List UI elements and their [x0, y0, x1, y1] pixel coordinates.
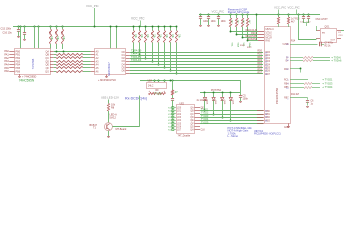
- svg-text:RD4: RD4: [258, 63, 263, 65]
- U5 bottom ground pin: [287, 123, 290, 127]
- U5 pin VUSB wire: [290, 42, 324, 47]
- lower bus wires to U5: [200, 111, 263, 124]
- svg-text:PIC18F4550: PIC18F4550: [275, 87, 279, 104]
- svg-text:74HC595N: 74HC595N: [19, 78, 34, 82]
- osc internal text: [322, 33, 336, 42]
- IC2 internal pin names left: [96, 50, 100, 73]
- label C15 100n: [1, 28, 12, 31]
- bus wires IC2 to U5: [130, 53, 263, 74]
- svg-text:QH: QH: [190, 130, 194, 132]
- svg-text:PGC: PGC: [247, 47, 252, 49]
- IC2 right pin stubs: [126, 53, 130, 74]
- wire VCC drop to U5 MCLR region: [256, 14, 258, 41]
- wire VCC rail right section: [199, 14, 320, 16]
- net labels TXPA-D0..D3: [131, 50, 142, 62]
- resistor RN1e: [54, 67, 91, 69]
- wire y80 drops to U$4: [155, 80, 165, 82]
- capacitor on x172.5: [171, 99, 174, 108]
- capacitor C16: [23, 26, 26, 41]
- U5 upper left pin labels: [245, 30, 257, 41]
- svg-text:VCC_PIC: VCC_PIC: [288, 6, 300, 10]
- crystal capacitor CX2: [307, 14, 310, 23]
- svg-text:74HC595: 74HC595: [32, 58, 35, 69]
- label R8 10k: [111, 104, 116, 110]
- labels PGD PGC: [240, 45, 252, 49]
- wire osc bottom hline: [298, 39, 316, 41]
- U$2 left pad chain: [172, 108, 174, 130]
- IC2 internal pin names right: [122, 51, 126, 73]
- svg-text:TXPA-D3: TXPA-D3: [131, 59, 142, 62]
- svg-text:VCC_PIC: VCC_PIC: [274, 6, 286, 10]
- pin labels at U5 left mid: [258, 51, 263, 75]
- resistor RI4 ICSP: [246, 14, 258, 41]
- note text block: [228, 126, 253, 138]
- svg-text:OSC2: OSC2: [266, 35, 273, 37]
- capacitor C2 decoupling: [199, 14, 202, 27]
- svg-text:RD1: RD1: [258, 54, 263, 56]
- svg-text:OSC LP/XT: OSC LP/XT: [316, 19, 329, 21]
- svg-text:CLK: CLK: [201, 130, 206, 132]
- resistor RI1 ICSP: [229, 14, 258, 32]
- U5 pin RC1 wire label: [290, 79, 333, 82]
- U$2 internal text: [177, 107, 194, 132]
- net labels SCL SDA vertical: [231, 43, 251, 48]
- wire to R8: [108, 100, 110, 104]
- svg-text:PIC18F4550 -I/O(PLCC): PIC18F4550 -I/O(PLCC): [254, 133, 281, 136]
- U$2 right pins: [195, 108, 201, 130]
- oscillator QG1 box: [321, 29, 337, 43]
- IC2 left pins: [91, 52, 95, 72]
- svg-text:R11 4k7: R11 4k7: [291, 94, 300, 96]
- junction dots on left rail: [18, 26, 64, 28]
- svg-text:OUT: OUT: [331, 40, 336, 42]
- capacitor C4 decoupling: [217, 14, 220, 27]
- diode D1: [203, 93, 206, 111]
- label RP4 value: [150, 32, 155, 38]
- label RP2 value: [137, 32, 142, 38]
- svg-text:RD5: RD5: [258, 66, 263, 68]
- IC2 MCP23017 box: [95, 49, 126, 75]
- diode D2: [212, 93, 215, 115]
- svg-text:QG1: QG1: [325, 27, 331, 29]
- component between rail and U5 top 2: [287, 14, 289, 27]
- svg-text:⇒ TXD+6: ⇒ TXD+6: [331, 60, 342, 63]
- svg-text:U$2: U$2: [180, 102, 185, 105]
- resistor RP5 pull-up: [157, 26, 159, 66]
- svg-text:RD7: RD7: [258, 73, 263, 75]
- wire osc bottom stub: [316, 39, 318, 40]
- wire horizontal net y93: [200, 92, 240, 94]
- wire rail to IC1 top pin 2: [38, 26, 40, 48]
- note Reserved ICSP: [228, 7, 250, 14]
- U5 left pins lower group stubs: [257, 111, 264, 124]
- resistor RN1d: [54, 64, 91, 66]
- svg-text:100n: 100n: [211, 21, 217, 23]
- label RP1 value: [131, 32, 136, 38]
- svg-text:U$4: U$4: [148, 80, 153, 83]
- label RP7 value: [168, 32, 173, 38]
- svg-text:QE: QE: [190, 120, 194, 122]
- resistor RN1a: [54, 54, 91, 56]
- wire osc out: [341, 30, 344, 32]
- U5 PIC18F4550 box: [265, 27, 291, 124]
- label T1 BC547: [90, 124, 98, 130]
- label RP8 value: [175, 32, 180, 38]
- resistor RP8 pull-up: [175, 26, 177, 75]
- wire T1 emitter to ground: [107, 131, 110, 138]
- svg-text:RD2: RD2: [258, 57, 263, 59]
- svg-text:RD3: RD3: [258, 60, 263, 62]
- resistor RP1 pull-up: [132, 26, 134, 54]
- svg-text:QB: QB: [190, 111, 194, 113]
- svg-text:100n: 100n: [221, 21, 227, 23]
- U$2 right pin labels: [201, 108, 206, 132]
- resistor RD2: [158, 90, 166, 95]
- label LED-A: [110, 114, 118, 120]
- IC1 ground pin: [18, 74, 21, 78]
- svg-text:POT/754: POT/754: [211, 89, 221, 92]
- label RP5 value: [156, 32, 161, 38]
- oscillator pins: [316, 31, 341, 39]
- U5 internal pin names right: [282, 44, 289, 100]
- svg-text:L - Mono: L - Mono: [228, 134, 239, 138]
- svg-text:Report SPI mode: Report SPI mode: [228, 10, 250, 14]
- resistor R8: [107, 104, 109, 112]
- svg-text:4148: 4148: [214, 100, 216, 106]
- label C7 470n: [325, 43, 334, 48]
- resistor R2 pullup: [55, 26, 57, 49]
- svg-text:QG: QG: [45, 70, 49, 73]
- crystal capacitor CX1: [302, 14, 305, 23]
- svg-text:⇒ TYC01: ⇒ TYC01: [322, 79, 333, 82]
- U5 pin RB4 resistor: [290, 82, 320, 84]
- diode D4: [229, 93, 232, 121]
- wire rail to IC1 pin VCC: [20, 26, 22, 48]
- resistor RN1c: [54, 61, 91, 63]
- label R2 10k: [54, 31, 58, 40]
- svg-text:OSC1: OSC1: [266, 32, 273, 34]
- resistor RP2 pull-up: [138, 26, 140, 57]
- svg-text:QG: QG: [190, 126, 194, 128]
- IC1 right pins: [50, 52, 54, 72]
- U$2 left pad labels: [168, 108, 171, 132]
- svg-text:QA: QA: [190, 107, 194, 110]
- svg-text:TYC05: TYC05: [201, 122, 209, 124]
- label C6 1u: [311, 101, 315, 106]
- svg-text:PB6: PB6: [16, 70, 21, 73]
- U5 pin D+ series resistor: [290, 59, 330, 61]
- label osc out: [339, 32, 344, 37]
- svg-text:OSC2: OSC2: [251, 33, 258, 35]
- svg-text:RA5: RA5: [266, 39, 271, 42]
- IC1 74HC595 box: [15, 49, 51, 75]
- U5 pin D- series resistor: [290, 56, 330, 58]
- U5 internal pin numbers: [265, 44, 289, 123]
- label RP3 value: [144, 32, 149, 38]
- label C5 100n: [243, 95, 249, 101]
- net label VCC_PIC above IC2: [86, 4, 99, 27]
- svg-text:4148: 4148: [223, 100, 225, 106]
- svg-text:MT-Board: MT-Board: [116, 128, 127, 131]
- label R1 10k: [48, 31, 52, 40]
- capacitor C15: [17, 26, 20, 38]
- svg-text:+ MCP23017SO: + MCP23017SO: [98, 79, 116, 82]
- U$2 left pads: [172, 107, 176, 131]
- IC1 internal pin names: [16, 50, 50, 73]
- resistor RN1b: [54, 57, 91, 59]
- svg-text:VCC_PIC: VCC_PIC: [131, 17, 145, 21]
- svg-text:R2 1k: R2 1k: [325, 45, 332, 47]
- wire caps join: [304, 23, 310, 27]
- svg-text:VCC_PIC: VCC_PIC: [86, 4, 99, 8]
- wire osc left vertical: [316, 26, 318, 31]
- resistor RP7 pull-up: [169, 26, 171, 72]
- resistor RP4 pull-up: [151, 26, 153, 63]
- svg-text:74T_Doable: 74T_Doable: [178, 135, 191, 137]
- wire R8 to T1 collector: [108, 111, 110, 123]
- U$4 box: [147, 83, 167, 89]
- U5 pin RC2 wire: [290, 68, 301, 73]
- resistor RI2 ICSP: [235, 14, 258, 35]
- wire rail to IC2 top pin 2: [116, 26, 118, 49]
- svg-text:MCLR/VPP: MCLR/VPP: [246, 36, 258, 38]
- transistor T1 BC547: [104, 123, 112, 131]
- svg-text:SDA: SDA: [236, 43, 239, 48]
- junction dots right rail: [200, 14, 310, 16]
- svg-text:Rx-DCDC(4x): Rx-DCDC(4x): [125, 96, 147, 100]
- svg-text:PA6: PA6: [4, 70, 9, 73]
- capacitor C5: [239, 93, 242, 103]
- wire rail down to osc: [298, 14, 300, 40]
- svg-text:OE: OE: [201, 108, 205, 110]
- resistor RD1: [149, 90, 157, 95]
- svg-text:RD6: RD6: [258, 69, 263, 71]
- wire y80 to y93 link: [240, 80, 242, 93]
- svg-text:TYC02: TYC02: [201, 113, 209, 115]
- resistor R1 pullup: [49, 26, 51, 49]
- svg-text:VCC_PIC: VCC_PIC: [212, 10, 225, 14]
- net labels D+ D-: [331, 56, 342, 62]
- svg-text:TYC03: TYC03: [201, 116, 209, 118]
- svg-text:MCLR: MCLR: [266, 37, 273, 39]
- svg-text:4148: 4148: [206, 100, 208, 106]
- svg-text:C7 470n: C7 470n: [325, 43, 334, 45]
- net labels TYC lower bus: [201, 110, 209, 125]
- wire T1 base: [112, 126, 139, 128]
- wire VCC rail left section: [13, 26, 177, 28]
- resistor RP3 pull-up: [144, 26, 146, 60]
- svg-text:⇒ TYC04: ⇒ TYC04: [322, 86, 333, 89]
- svg-text:⇒ TYC03: ⇒ TYC03: [322, 82, 333, 85]
- svg-text:TYC05: TYC05: [154, 93, 162, 95]
- svg-text:100n: 100n: [243, 97, 249, 100]
- label U5 value: [254, 130, 281, 136]
- svg-text:C16 10u: C16 10u: [3, 31, 13, 34]
- svg-text:4148: 4148: [231, 100, 233, 106]
- svg-text:OSC1/CLKI: OSC1/CLKI: [245, 30, 257, 32]
- wire rail to IC2 top pin 1: [110, 26, 112, 49]
- wire rail to IC1 top pin: [34, 26, 36, 48]
- labels right of top components: [291, 19, 300, 24]
- svg-text:EN: EN: [322, 33, 325, 35]
- U$2 box: [177, 105, 195, 134]
- component between rail and U5 top 1: [277, 14, 279, 27]
- svg-text:GND: GND: [284, 127, 289, 129]
- diode D3: [221, 93, 224, 118]
- label RP6 value: [162, 32, 167, 38]
- net label VCC_PIC on left rail: [131, 17, 145, 27]
- svg-text:TYC04: TYC04: [201, 119, 209, 121]
- svg-text:U$5 LED-12V: U$5 LED-12V: [101, 96, 119, 100]
- svg-text:U$7A 4: U$7A 4: [266, 28, 275, 31]
- resistor RP6 pull-up: [163, 26, 165, 69]
- svg-text:24LC: 24LC: [148, 86, 154, 88]
- wire IC1 pin row 1 net: [54, 51, 91, 53]
- label R3 10k: [60, 31, 64, 40]
- capacitor C3 decoupling: [207, 14, 210, 27]
- IC2 bottom ground pin: [105, 75, 108, 78]
- wire base riser: [139, 96, 141, 127]
- U5 pin RB7 capacitor C6: [290, 98, 309, 108]
- U5 internal pin names left: [266, 32, 273, 123]
- svg-text:C15 100n: C15 100n: [1, 28, 12, 31]
- svg-text:TYC01: TYC01: [201, 110, 209, 112]
- svg-text:5V/12: 5V/12: [110, 116, 117, 119]
- U5 left pins upper group: [258, 32, 264, 41]
- U5 pin RB5 resistor: [290, 86, 320, 88]
- svg-text:QC: QC: [190, 114, 194, 116]
- resistor RN1f: [54, 71, 91, 73]
- svg-text:QD: QD: [190, 117, 194, 119]
- svg-text:RA5/AN4: RA5/AN4: [248, 38, 258, 41]
- wire horizontal net y80: [140, 80, 240, 82]
- resistor RI3 ICSP: [241, 14, 258, 38]
- IC1 left pins and labels: [4, 50, 14, 73]
- label caps: [300, 21, 311, 23]
- svg-text:MCP23017: MCP23017: [107, 62, 111, 76]
- svg-text:PGD: PGD: [240, 45, 245, 47]
- svg-text:RD0: RD0: [258, 51, 263, 53]
- net labels TYC right: [322, 82, 333, 89]
- grey labels above U5: [274, 6, 300, 15]
- resistor R7 on vertical x172.5: [171, 80, 173, 98]
- resistor R3 pullup: [61, 26, 63, 49]
